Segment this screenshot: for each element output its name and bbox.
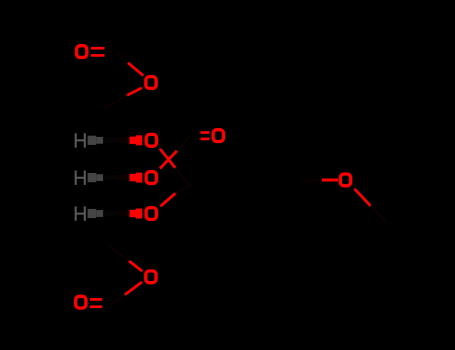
wire (302, 180, 322, 182)
wedge bonds (88, 135, 143, 218)
O wedge row1 red half (130, 137, 137, 144)
wire (116, 53, 128, 63)
O ester bottom (146, 271, 156, 283)
wire (175, 168, 190, 186)
wire (175, 186, 190, 193)
carbon-carbon skeleton (invisible dark) (103, 109, 302, 245)
H1 (75, 133, 86, 147)
top acetate C-O ester bond (128, 63, 143, 76)
H wedge row1 gray half (88, 136, 97, 145)
bond ring-OMe (322, 179, 338, 182)
wire backbone chain (103, 109, 118, 245)
benzene ring (224, 148, 302, 216)
O wedge row3 red half (130, 210, 137, 217)
acetyl2 C=O double bond (201, 131, 210, 134)
H wedge row1 dark half (103, 137, 117, 144)
H wedge row2 gray half (88, 173, 97, 182)
O wedge row2 red half (130, 174, 137, 181)
O methoxy (340, 174, 350, 186)
top ester O-CH2 bond (127, 88, 142, 96)
O ketone top (77, 46, 87, 58)
O wedge row1 dark half (118, 137, 130, 144)
wire (103, 95, 127, 109)
atom labels as shapes (76, 46, 351, 308)
carbon halves of C-O bonds (very dark red) (103, 53, 387, 306)
O ester top (146, 77, 156, 89)
wire (110, 295, 125, 305)
O acetyl2 carbonyl (213, 130, 223, 142)
H2 (75, 171, 86, 185)
top acetate C=O double bond (91, 47, 105, 50)
wire (371, 206, 388, 223)
wire (108, 245, 129, 261)
O3 (146, 208, 156, 220)
O wedge row3 dark half (118, 210, 130, 217)
X bond O1-acetal C (160, 149, 175, 168)
O wedge row2 dark half (118, 174, 130, 181)
O ketone bottom (76, 296, 86, 308)
bond OMe-CH3 (355, 189, 371, 206)
X bond O2-acetyl C (160, 151, 177, 169)
O2 (146, 172, 156, 184)
H wedge row2 dark half (103, 174, 117, 181)
wire (177, 136, 190, 151)
red bond halves (90, 48, 371, 307)
wire acetal C to ring (190, 182, 224, 187)
H wedge row3 dark half (103, 210, 117, 217)
bottom acetate C=O double bond (90, 298, 102, 301)
bottom CH2-O ester bond (129, 261, 142, 271)
H wedge row3 gray half (88, 209, 97, 218)
O1 (146, 134, 156, 146)
H3 (75, 206, 86, 220)
bottom acetate C-O bond (125, 282, 142, 295)
bond O3-acetal C (160, 193, 175, 206)
